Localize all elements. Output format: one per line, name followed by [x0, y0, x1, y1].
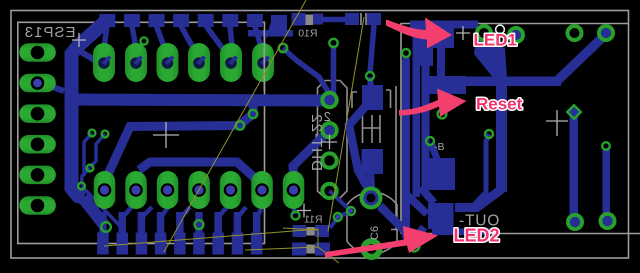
- svg-text:R11: R11: [304, 214, 323, 226]
- svg-text:Reset: Reset: [476, 95, 523, 114]
- svg-text:-B: -B: [434, 141, 445, 153]
- svg-text:C6: C6: [369, 226, 381, 240]
- svg-text:LED1: LED1: [474, 31, 517, 50]
- svg-text:R10: R10: [298, 28, 317, 40]
- svg-text:DHT-22: DHT-22: [308, 113, 325, 171]
- svg-text:2: 2: [324, 109, 331, 124]
- svg-text:LED2: LED2: [454, 226, 500, 246]
- svg-text:ESP13: ESP13: [24, 24, 76, 41]
